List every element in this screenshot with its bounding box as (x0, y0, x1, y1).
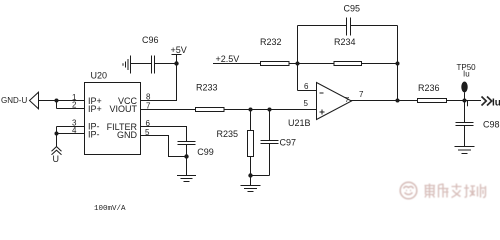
svg-text:IP-: IP- (88, 130, 100, 140)
ground under C99 (177, 176, 196, 182)
junction dot C99 ground node (184, 154, 188, 158)
ground under C98 (455, 147, 475, 154)
svg-text:5: 5 (304, 99, 309, 108)
svg-text:C96: C96 (142, 35, 159, 45)
wire GND-U to pin1 (39, 100, 85, 102)
power +5V symbol (171, 45, 187, 64)
svg-text:7: 7 (359, 90, 364, 99)
svg-text:100mV/A: 100mV/A (94, 205, 126, 211)
wire op-amp inverting input (298, 90, 317, 92)
resistor R233 (196, 108, 225, 112)
watermark text strokes (425, 184, 486, 199)
wire pin6 FILTER to C99 (141, 127, 187, 142)
svg-text:4: 4 (72, 126, 77, 135)
test point TP50 pad (461, 82, 467, 93)
svg-text:Iu: Iu (492, 98, 500, 109)
port GND-U triangle connector (30, 92, 39, 109)
wire feedback top rail (298, 25, 398, 27)
junction dot +5V node (174, 61, 178, 65)
junction dot node GND-U (55, 99, 59, 103)
svg-text:R236: R236 (418, 83, 440, 93)
wire pin3 (57, 126, 85, 128)
wire op-amp output (351, 100, 418, 102)
wire C99 to ground node (186, 145, 188, 176)
junction dot C97 tap (268, 108, 272, 112)
svg-text:C95: C95 (344, 4, 361, 14)
off-page connector chevrons Iu (482, 97, 492, 106)
svg-text:R232: R232 (260, 37, 282, 47)
capacitor C97 (261, 110, 279, 176)
ground rotated at C96 (123, 56, 131, 74)
op-amp minus sign (320, 92, 324, 94)
junction dot output node (396, 99, 400, 103)
resistor R234 (334, 62, 362, 66)
svg-text:Iu: Iu (463, 70, 470, 79)
svg-text:+5V: +5V (171, 45, 187, 55)
wire +2.5V rail (213, 63, 398, 65)
tick mark right of TP50 node (467, 100, 469, 106)
svg-text:R233: R233 (196, 83, 218, 93)
wire C96 left to ground (131, 63, 152, 65)
junction dot R235 C97 ground node (248, 173, 252, 177)
svg-text:R234: R234 (334, 37, 356, 47)
junction dot feedback left (296, 62, 300, 66)
junction dot node U (55, 132, 59, 136)
ground under R235 C97 (241, 176, 261, 192)
svg-text:7: 7 (345, 95, 349, 104)
wire C96 right to +5V node (155, 63, 177, 65)
svg-text:C98: C98 (483, 120, 500, 130)
wire pin8 VCC to +5V (141, 64, 177, 101)
wire feedback left vertical (297, 26, 299, 91)
wire branch to pin2 (57, 101, 85, 109)
op-amp plus sign (320, 110, 325, 115)
capacitor C96 plates (152, 56, 155, 74)
resistor R232 (261, 62, 290, 66)
watermark logo circle (400, 182, 417, 199)
svg-text:+2.5V: +2.5V (216, 54, 240, 64)
svg-text:2: 2 (72, 101, 77, 110)
capacitor C95 plates (347, 18, 351, 36)
wire C97 bottom to ground node (251, 175, 270, 177)
resistor R235 (248, 110, 254, 176)
svg-text:IP+: IP+ (88, 104, 102, 114)
svg-text:6: 6 (304, 82, 309, 91)
svg-text:R235: R235 (217, 129, 239, 139)
op-amp U21B triangle (317, 83, 352, 120)
wire R236 to output connector (447, 100, 482, 102)
capacitor C99 plates (178, 142, 196, 145)
svg-text:VIOUT: VIOUT (109, 104, 137, 114)
wire pin7 VIOUT rail (141, 109, 317, 111)
wire pin4 (57, 133, 85, 135)
svg-text:U20: U20 (91, 71, 108, 81)
svg-text:C97: C97 (280, 138, 297, 148)
junction dot feedback mid right (396, 62, 400, 66)
wire vertical to net U (56, 127, 58, 148)
svg-text:U21B: U21B (288, 118, 311, 128)
junction dot R235 tap (249, 108, 253, 112)
capacitor C98 (456, 101, 474, 147)
wire pin5 GND to ground node (141, 136, 187, 157)
svg-text:C99: C99 (197, 147, 214, 157)
svg-text:GND: GND (117, 130, 138, 140)
net U chevron symbol (52, 147, 62, 155)
wire TP50 stem (464, 93, 466, 101)
wire feedback right vertical (397, 26, 399, 101)
svg-text:GND-U: GND-U (1, 96, 27, 105)
svg-text:U: U (53, 154, 60, 164)
resistor R236 (418, 99, 447, 103)
IC U20 body (85, 83, 141, 155)
junction dot TP50 node (463, 99, 467, 103)
